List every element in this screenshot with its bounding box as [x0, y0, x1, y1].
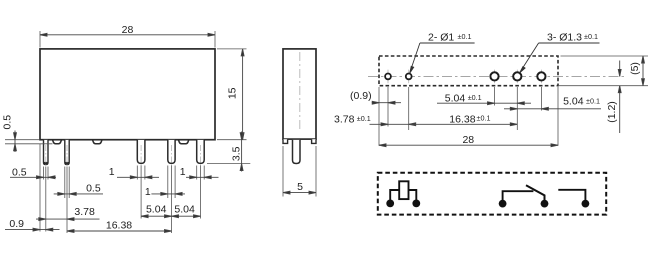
wire: coil left lead — [390, 190, 399, 200]
svg-text:5: 5 — [297, 181, 303, 193]
svg-text:3.78: 3.78 — [74, 206, 95, 218]
svg-text:15: 15 — [226, 87, 238, 99]
wire: side view body outline — [283, 49, 316, 139]
svg-text:2- Ø1: 2- Ø1 — [428, 32, 454, 44]
svg-text:1: 1 — [145, 186, 151, 198]
node dimension (5) board width — [642, 56, 645, 86]
pin side view — [293, 140, 301, 164]
svg-text:±0.1: ±0.1 — [357, 114, 371, 123]
node contact terminal NO — [499, 200, 507, 208]
node dimension (0.9) drilling plan — [372, 101, 401, 104]
svg-text:3.5: 3.5 — [231, 146, 243, 161]
node dimension 3.78 holes H1-H2 — [370, 123, 416, 126]
wire: right contact arm — [558, 190, 585, 200]
pin 5 (contact pin, front view) — [197, 140, 205, 164]
node standoff-notch-2 front view — [93, 140, 103, 144]
wire: fixed contact arm — [503, 191, 534, 200]
node dimension 3.78 pin1-pin2 pitch — [36, 218, 100, 221]
wire: side view center line — [299, 52, 301, 131]
node dimension 1 pin4 width — [151, 192, 185, 195]
svg-text:5.04: 5.04 — [445, 92, 466, 104]
wire: extension lines below front view — [40, 144, 204, 233]
svg-text:1: 1 — [180, 166, 186, 178]
node dimension 5.04 pin4-pin5 pitch — [172, 215, 201, 218]
svg-text:(0.9): (0.9) — [350, 90, 372, 102]
node dimension 28 drilling plan — [379, 144, 558, 147]
svg-text:16.38: 16.38 — [449, 113, 475, 125]
node side view right foot — [312, 139, 316, 143]
node coil terminal 1 — [386, 200, 394, 208]
svg-text:16.38: 16.38 — [106, 220, 132, 232]
node dimension 16.38 holes H2-H4 — [409, 123, 518, 126]
svg-text:1: 1 — [109, 166, 115, 178]
node standoff-notch-1 front view — [53, 140, 62, 144]
node hole H3 (diameter 1.3) — [490, 72, 498, 80]
wire: front view body outline — [40, 49, 215, 140]
node contact terminal 3 — [582, 200, 590, 208]
node dimension 15 right of front view — [217, 49, 247, 140]
node PCB outline (dashed) drilling plan — [379, 56, 558, 86]
svg-text:±0.1: ±0.1 — [584, 32, 598, 41]
node hole H1 (diameter 1) — [385, 74, 391, 80]
node coil terminal 2 — [412, 200, 420, 208]
wire: drilling plan horizontal center line — [368, 75, 626, 77]
node label 2-diameter-1 with leader — [410, 43, 475, 73]
node dimension 5.04 holes H4-H5 — [504, 107, 601, 110]
svg-text:28: 28 — [122, 24, 134, 36]
pin 2 (coil pin, front view) — [65, 140, 69, 165]
pin 4 (contact pin, front view) — [168, 140, 175, 164]
wire: movable contact blade — [526, 185, 545, 200]
svg-text:0.5: 0.5 — [2, 115, 14, 130]
node dimension 28 top of front view — [40, 31, 215, 48]
node hole H5 (diameter 1.3) — [537, 72, 545, 80]
svg-text:(5): (5) — [629, 62, 641, 75]
node dimension 5 side view width — [283, 146, 316, 197]
wire: right side extension lines drilling plan — [559, 56, 648, 86]
node schematic boundary (dashed box) — [378, 173, 606, 215]
node dimension 3.5 pin length right side — [207, 163, 250, 165]
node dimension 0.5 pin1 width — [10, 176, 56, 179]
pin 1 (coil pin, front view) — [44, 140, 49, 165]
node dimension 0.9 body edge to pin1 — [5, 228, 60, 231]
node dimension 1 pin3 width — [117, 176, 159, 179]
svg-text:3- Ø1.3: 3- Ø1.3 — [547, 32, 582, 44]
wire: extension lines below drilling plan — [379, 87, 558, 146]
node label 3-diameter-1.3 with leader — [520, 43, 600, 73]
svg-text:±0.1: ±0.1 — [468, 93, 482, 102]
node hole H2 (diameter 1) — [406, 74, 412, 80]
node dimension 5.04 holes H3-H4 — [437, 102, 531, 105]
node side view left foot — [283, 139, 288, 143]
node contact terminal COM — [541, 200, 549, 208]
svg-text:5.04: 5.04 — [146, 204, 167, 216]
node dimension (1.2) center line to board edge — [618, 61, 621, 134]
wire: hole vertical cross lines — [388, 70, 541, 84]
node dimension 16.38 pin2-pin4 pitch — [67, 230, 172, 233]
node dimension 1 pin5 width — [186, 176, 219, 179]
svg-text:0.5: 0.5 — [86, 183, 101, 195]
svg-text:±0.1: ±0.1 — [458, 32, 472, 41]
svg-text:±0.1: ±0.1 — [586, 96, 600, 105]
svg-text:5.04: 5.04 — [563, 96, 584, 108]
svg-text:0.9: 0.9 — [9, 218, 24, 230]
svg-text:5.04: 5.04 — [174, 204, 195, 216]
pin 3 (contact pin, front view) — [137, 140, 145, 164]
svg-text:28: 28 — [462, 134, 474, 146]
node dimension 0.5 left side standoff — [5, 140, 53, 144]
svg-text:(1.2): (1.2) — [606, 101, 618, 123]
svg-text:±0.1: ±0.1 — [477, 114, 491, 123]
node dimension 5.04 pin3-pin4 pitch — [141, 215, 171, 218]
wire: coil right lead — [409, 190, 417, 200]
wire: pin center lines front view — [46, 145, 201, 168]
node standoff-notch-3 front view — [178, 140, 188, 144]
svg-text:0.5: 0.5 — [12, 166, 27, 178]
coil K1 — [399, 181, 408, 199]
svg-text:3.78: 3.78 — [334, 113, 355, 125]
node hole H4 (diameter 1.3) — [513, 72, 521, 80]
node dimension 0.5 pin2 width — [54, 192, 103, 195]
